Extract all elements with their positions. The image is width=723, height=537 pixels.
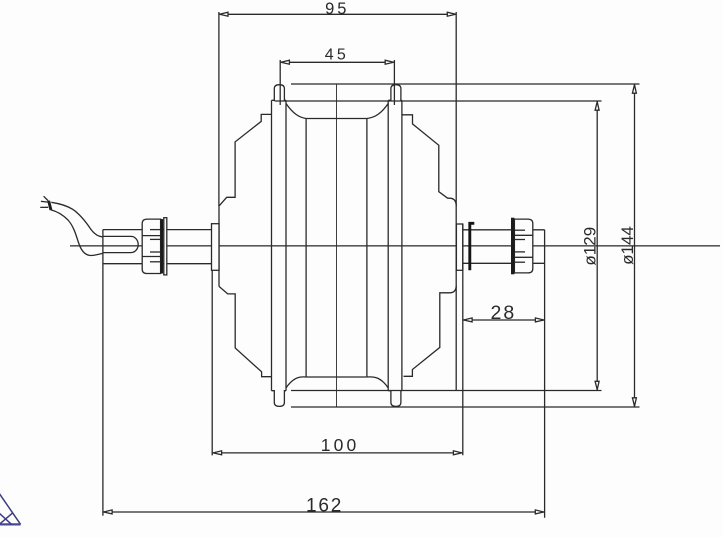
dimension ø144 arrows	[632, 85, 636, 93]
right flange top dome	[388, 85, 402, 101]
cable strand 1	[44, 196, 49, 201]
right nut clamped face (thick)	[511, 218, 514, 275]
svg-text:ø129: ø129	[581, 227, 600, 266]
logo triangle hypotenuse	[0, 494, 21, 525]
svg-text:100: 100	[321, 435, 360, 455]
left cover upper profile	[219, 114, 271, 205]
left washer	[164, 218, 167, 275]
dimension 95 left extension	[218, 12, 220, 206]
logo triangle base	[0, 523, 21, 525]
axle left segment	[103, 229, 212, 231]
main horizontal centerline	[70, 245, 720, 247]
dimension ø129 arrows	[595, 102, 599, 110]
top band line (ø144 extent + extension line)	[291, 83, 640, 85]
barrel top	[306, 118, 367, 120]
left flange top dome	[272, 85, 287, 101]
left bearing boss plate	[212, 224, 220, 271]
dimension ø129 line	[596, 101, 598, 391]
left boss edge extension (100 dim)	[211, 270, 213, 455]
right flange bottom dome	[388, 391, 402, 407]
left cover face vertical	[218, 206, 220, 287]
left nut clamped face (thick)	[161, 219, 164, 273]
right cover face vertical (merges with 95/129 extension)	[455, 12, 457, 391]
svg-text:95: 95	[325, 0, 349, 18]
svg-text:45: 45	[325, 47, 349, 64]
motor vertical mid line	[336, 84, 338, 407]
left axle nut	[142, 219, 160, 273]
axle right segment	[463, 229, 545, 231]
cable upper edge	[51, 202, 103, 237]
svg-text:162: 162	[306, 496, 343, 517]
dimension 95 arrows	[220, 12, 228, 16]
barrel joint vertical left	[305, 119, 307, 378]
dimension 28 arrows	[464, 318, 472, 322]
right cover upper profile	[402, 115, 456, 206]
dimension 45 left extension	[279, 60, 281, 105]
dimension 45 line	[280, 61, 394, 63]
right axle nut	[514, 219, 532, 273]
right bearing boss plate	[456, 224, 462, 270]
bottom band line (ø144 extension)	[291, 406, 640, 408]
right cover lower profile	[404, 286, 457, 377]
dimension 100 line	[212, 452, 462, 454]
logo X leg 2	[0, 513, 13, 524]
right serrated washer with tab	[470, 223, 475, 270]
barrel joint vertical right	[366, 119, 368, 378]
axle right end face (continues as 28/162 extension)	[544, 230, 546, 518]
dimension 28 line	[463, 319, 545, 321]
svg-text:28: 28	[491, 302, 517, 324]
dimension ø144 line	[634, 84, 636, 407]
axle left end face (continues as 162 extension)	[102, 230, 104, 516]
right spoke flange verticals	[387, 100, 389, 390]
cable strand 2	[41, 200, 48, 203]
left cover lower profile	[219, 286, 271, 376]
fillet bottom-right	[367, 377, 388, 388]
dimension 45 arrows	[281, 60, 289, 64]
dimension 45 right extension	[393, 60, 395, 105]
fillet bottom-left	[286, 377, 306, 388]
dimension 162 arrows	[104, 510, 112, 514]
left flange bottom dome	[272, 391, 287, 407]
axle cable bore	[103, 235, 131, 237]
dimension 95 line	[219, 13, 457, 15]
dimension 100 arrows	[213, 451, 221, 455]
logo X leg 1	[0, 513, 12, 524]
bottom shoulder line (ø129 extension)	[291, 390, 602, 392]
shoulder band line (ø129 extent + extension line)	[275, 100, 602, 102]
cable lower edge	[51, 210, 103, 256]
left spoke flange verticals	[271, 100, 273, 390]
fillet top-right	[367, 104, 388, 119]
cable end band	[49, 201, 51, 210]
fillet top-left	[286, 104, 306, 119]
svg-text:ø144: ø144	[618, 226, 637, 265]
right boss edge extension (28/100 dims)	[462, 224, 464, 455]
barrel bottom	[306, 376, 367, 378]
dimension 162 line	[103, 511, 545, 513]
cable strand 3	[40, 206, 48, 208]
